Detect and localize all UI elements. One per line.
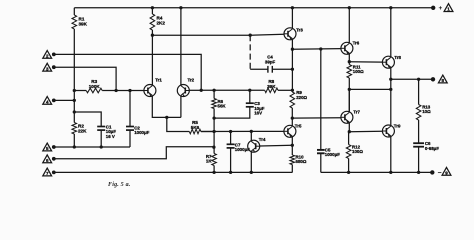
junction dot C2 top — [128, 89, 131, 92]
junction dot R4 rail — [151, 6, 154, 9]
label R11 100ohm — [353, 64, 364, 74]
resistor R13 — [416, 105, 421, 121]
transistor Tr4 — [248, 140, 260, 152]
junction dot R3 left — [73, 89, 76, 92]
junction dot C4 tap — [249, 34, 252, 37]
wire Tr4 emitter — [250, 152, 252, 173]
wire R9 bottom — [291, 108, 293, 118]
svg-text:100K: 100K — [89, 84, 101, 89]
label R10 680ohm — [296, 154, 307, 164]
label C5 1000uF — [325, 147, 340, 157]
label R12 100ohm — [352, 144, 363, 154]
terminal 7 triangle — [43, 168, 52, 176]
svg-text:220Ω: 220Ω — [296, 95, 307, 100]
wire terminal3 bent to R3 right node — [54, 67, 116, 90]
label Tr5 — [295, 123, 302, 128]
capacitor C5 — [317, 150, 325, 153]
wire Tr3 emitter to Tr6 base — [292, 48, 341, 51]
wire R8 bus right — [278, 89, 292, 91]
transistor Tr1 — [144, 85, 156, 97]
wire Tr2 collector — [180, 8, 182, 86]
junction dot Tr9 rail — [389, 171, 392, 174]
junction dot R7 rail — [212, 171, 215, 174]
junction dot R11 bottom — [348, 88, 351, 91]
wire Tr4 base to Tr5 emitter — [260, 144, 292, 147]
svg-text:Fig. 5 a.: Fig. 5 a. — [108, 182, 131, 188]
svg-text:56K: 56K — [218, 104, 227, 109]
wire C2 bottom lead — [129, 130, 131, 147]
wire R6 top lead — [213, 90, 215, 98]
wire C4 vertical (dashed in scan) — [249, 35, 251, 69]
label R8 39K — [267, 79, 276, 89]
junction dot R6 bottom node — [212, 116, 215, 119]
terminal 9 triangle (- supply) — [442, 167, 451, 175]
positive supply terminal dot — [431, 6, 435, 10]
label Tr1 — [155, 78, 162, 83]
svg-text:−: − — [438, 170, 442, 177]
terminal 4 dot — [52, 99, 56, 103]
wire Tr8 base line — [349, 61, 382, 63]
plus sign — [439, 5, 443, 12]
output terminal dot — [431, 77, 435, 81]
label R2 22K — [78, 124, 87, 134]
svg-text:Tr5: Tr5 — [295, 123, 302, 128]
wire R3 row to Tr1 base — [74, 90, 144, 92]
wire C1 bottom — [100, 130, 102, 147]
wire Tr4 collector — [250, 131, 252, 141]
wire R12 leads — [348, 132, 350, 173]
label C4 39pF — [265, 55, 276, 65]
wire Tr1 emitter — [152, 96, 181, 118]
wire Tr9 collector — [390, 124, 392, 126]
caption Fig. 5a — [108, 182, 131, 188]
svg-text:Tr8: Tr8 — [394, 55, 401, 60]
resistor R6 — [212, 99, 217, 109]
wire C5 bottom — [320, 153, 322, 172]
svg-text:680Ω: 680Ω — [296, 159, 307, 164]
label R5 5K6 — [191, 120, 200, 130]
junction dot R7 top — [212, 146, 215, 149]
junction dot Tr4 rail — [250, 171, 253, 174]
terminal 2 triangle — [43, 51, 52, 59]
transistor Tr8 — [382, 56, 394, 68]
wire R11 bottom — [348, 78, 350, 112]
wire C3 bottom link — [214, 107, 250, 118]
junction dot R6 top — [212, 89, 215, 92]
resistor R4 — [150, 14, 155, 30]
wire Tr5 base bus — [201, 130, 284, 132]
capacitor C2 — [126, 127, 134, 131]
wire C4 row left — [250, 68, 268, 70]
svg-text:22K: 22K — [78, 128, 87, 133]
junction dot C7 rail — [229, 171, 232, 174]
wire Tr6 emitter — [348, 54, 350, 65]
junction dot R5/R6 — [212, 130, 215, 133]
resistor R10 — [290, 155, 295, 165]
wire C5 column — [320, 49, 322, 150]
label C1 10uF 16V — [106, 124, 117, 139]
junction dot Tr3 rail — [291, 6, 294, 9]
wire terminal2 to Tr2 base — [54, 54, 201, 90]
junction dot Tr5 emitter — [291, 144, 294, 147]
wire terminal6 to R7 top — [54, 147, 214, 159]
svg-text:16 V: 16 V — [106, 134, 115, 139]
wire Tr6 collector — [348, 8, 350, 43]
junction dot R12 rail — [347, 171, 350, 174]
terminal 3 triangle — [43, 63, 52, 71]
terminal 5 dot — [52, 145, 56, 149]
junction dot Tr3 emitter node — [291, 48, 294, 51]
svg-text:39K: 39K — [79, 21, 88, 26]
svg-text:16V: 16V — [254, 111, 262, 116]
label C6 0.68uF — [425, 141, 439, 151]
wire R4 node to Tr3 base — [152, 33, 284, 36]
resistor R5 — [189, 129, 201, 134]
wire R4 top lead — [151, 8, 153, 14]
svg-text:100Ω: 100Ω — [353, 69, 364, 74]
wire terminal4 to column — [54, 99, 75, 101]
wire +V top rail — [74, 7, 432, 9]
svg-text:10Ω: 10Ω — [422, 109, 431, 114]
wire Tr7 collector — [348, 89, 350, 112]
label C7 1000uF — [235, 142, 250, 152]
label R4 2K2 — [157, 16, 166, 26]
svg-text:1000μF: 1000μF — [325, 152, 340, 157]
wire Tr8 emitter / output column — [390, 67, 392, 125]
capacitor C6 — [413, 143, 424, 147]
svg-text:Tr4: Tr4 — [259, 137, 266, 142]
wire R6 bottom — [213, 109, 215, 154]
junction dot R4 bottom — [151, 34, 154, 37]
label R6 56K — [218, 99, 227, 109]
junction dot Tr6 rail — [348, 6, 351, 9]
wire Tr3 collector — [291, 8, 293, 29]
resistor R11 — [347, 65, 352, 79]
junction dot R2 bottom — [73, 145, 76, 148]
wire output line — [391, 78, 433, 80]
label Tr7 — [353, 110, 360, 115]
terminal 5 triangle — [43, 143, 52, 151]
junction dot column/terminal4 — [73, 99, 76, 102]
wire feedback drop — [167, 117, 190, 131]
wire Tr7 emitter — [348, 123, 350, 132]
terminal 4 triangle — [43, 97, 52, 105]
wire C7 bottom lead — [230, 148, 232, 172]
junction dot C7 top — [229, 130, 232, 133]
wire Tr5 emitter — [291, 137, 293, 145]
junction dot R11 link — [389, 88, 392, 91]
svg-text:100Ω: 100Ω — [352, 149, 363, 154]
label Tr2 — [188, 78, 195, 83]
junction dot R13 top — [417, 78, 420, 81]
junction dot C3 top — [248, 89, 251, 92]
junction dot R8 right — [291, 89, 294, 92]
terminal 6 triangle — [43, 155, 52, 163]
svg-text:39K: 39K — [267, 84, 276, 89]
label Tr4 — [259, 137, 266, 142]
wire R10 leads — [291, 145, 293, 172]
svg-text:Tr9: Tr9 — [394, 124, 401, 129]
svg-text:5K6: 5K6 — [191, 125, 200, 130]
resistor R1 — [72, 15, 77, 29]
resistor R12 — [346, 145, 351, 159]
wire 0V bottom rail right segment — [321, 171, 432, 173]
wire Tr3 emitter column — [291, 49, 293, 90]
wire C4 row right — [272, 68, 292, 70]
wire Tr3 emitter — [291, 39, 293, 49]
transistor Tr2 — [177, 85, 189, 97]
wire Tr8 collector — [390, 8, 392, 57]
svg-text:1K: 1K — [206, 159, 212, 164]
label C2 1000uF — [134, 125, 149, 135]
wire R7 bottom — [213, 166, 215, 173]
junction dot Tr7 emitter — [348, 130, 351, 133]
junction dot C6 rail — [417, 171, 420, 174]
junction dot input node — [114, 89, 117, 92]
wire R5 to R6 column — [201, 131, 214, 133]
wire C7 top lead — [230, 132, 232, 145]
svg-text:+: + — [439, 5, 443, 12]
svg-text:0·68μF: 0·68μF — [425, 146, 439, 151]
wire Tr5 collector to Tr7 base — [292, 117, 341, 119]
svg-text:Tr1: Tr1 — [155, 78, 162, 83]
label C3 10uF 16V — [254, 101, 265, 116]
label Tr8 — [394, 55, 401, 60]
capacitor C1 — [97, 127, 105, 131]
terminal 7 dot — [52, 171, 56, 175]
junction dot emitters — [165, 116, 168, 119]
transistor Tr7 — [341, 111, 353, 123]
junction dot C1 bottom — [100, 145, 103, 148]
minus sign — [438, 170, 442, 177]
wire R13 to C6 — [418, 120, 420, 143]
transistor Tr5 — [284, 125, 296, 137]
svg-text:Tr7: Tr7 — [353, 110, 360, 115]
transistor Tr3 — [284, 28, 296, 40]
wire Tr9 emitter — [390, 137, 392, 173]
negative supply terminal dot — [430, 170, 434, 174]
svg-text:Tr6: Tr6 — [353, 40, 360, 45]
terminal 1 triangle (+ supply) — [444, 4, 453, 12]
terminal 2 dot — [52, 53, 56, 57]
label R7 1K — [206, 154, 212, 164]
svg-text:2K2: 2K2 — [157, 20, 166, 25]
label Tr3 — [296, 28, 303, 33]
svg-text:39pF: 39pF — [265, 59, 276, 64]
junction dot Tr2 rail — [179, 6, 182, 9]
svg-text:Tr3: Tr3 — [296, 28, 303, 33]
terminal 3 dot — [52, 65, 56, 69]
junction dot C4 right — [291, 68, 294, 71]
wire Tr2 emitter — [180, 96, 182, 118]
junction dot Tr8 rail — [389, 6, 392, 9]
wire Tr5 collector — [291, 118, 293, 126]
junction dot C1 link — [73, 110, 76, 113]
junction dot output tap — [389, 78, 392, 81]
resistor R8 — [265, 88, 278, 93]
wire R8 bus left — [201, 89, 265, 91]
wire 0V bottom rail left segment — [55, 171, 293, 173]
wire C3 top lead — [249, 90, 251, 103]
transistor Tr9 — [382, 125, 394, 137]
capacitor C3 — [246, 103, 254, 107]
wire C1 link — [74, 112, 101, 127]
svg-text:Tr2: Tr2 — [188, 78, 195, 83]
wire R11 node to output column — [349, 88, 391, 90]
terminal 8 triangle (output) — [438, 75, 447, 83]
label Tr6 — [353, 40, 360, 45]
wire R1-R2 column — [73, 8, 75, 147]
resistor R3 — [86, 88, 102, 93]
svg-text:1000μF: 1000μF — [134, 130, 149, 135]
resistor R7 — [212, 154, 217, 166]
label R1 39K — [79, 17, 88, 27]
resistor R9 — [290, 92, 295, 108]
terminal 6 dot — [52, 157, 56, 161]
capacitor C4 — [268, 66, 272, 73]
label Tr9 — [394, 124, 401, 129]
capacitor C7 — [227, 144, 235, 148]
wire C2 top lead — [129, 91, 131, 127]
junction dot Tr4 collector node — [250, 130, 253, 133]
junction dot R9 bottom — [291, 116, 294, 119]
wire R13 top lead — [418, 79, 420, 104]
wire R4 bottom to Tr1 collector — [151, 30, 153, 85]
transistor Tr6 — [341, 42, 353, 54]
label R9 220ohm — [296, 90, 307, 100]
junction dot Tr2 base node — [200, 89, 203, 92]
wire ground line C1 C2 R2 — [54, 146, 130, 148]
label R3 100K — [89, 79, 101, 89]
junction dot bootstrap tap — [319, 47, 322, 50]
junction dot Tr8 base tap — [348, 60, 351, 63]
resistor R2 — [72, 123, 77, 135]
wire Tr2 base link — [189, 89, 201, 91]
wire Tr7 emitter to Tr9 base — [349, 130, 382, 133]
wire C6 bottom — [418, 147, 420, 173]
label R13 10ohm — [422, 104, 431, 114]
